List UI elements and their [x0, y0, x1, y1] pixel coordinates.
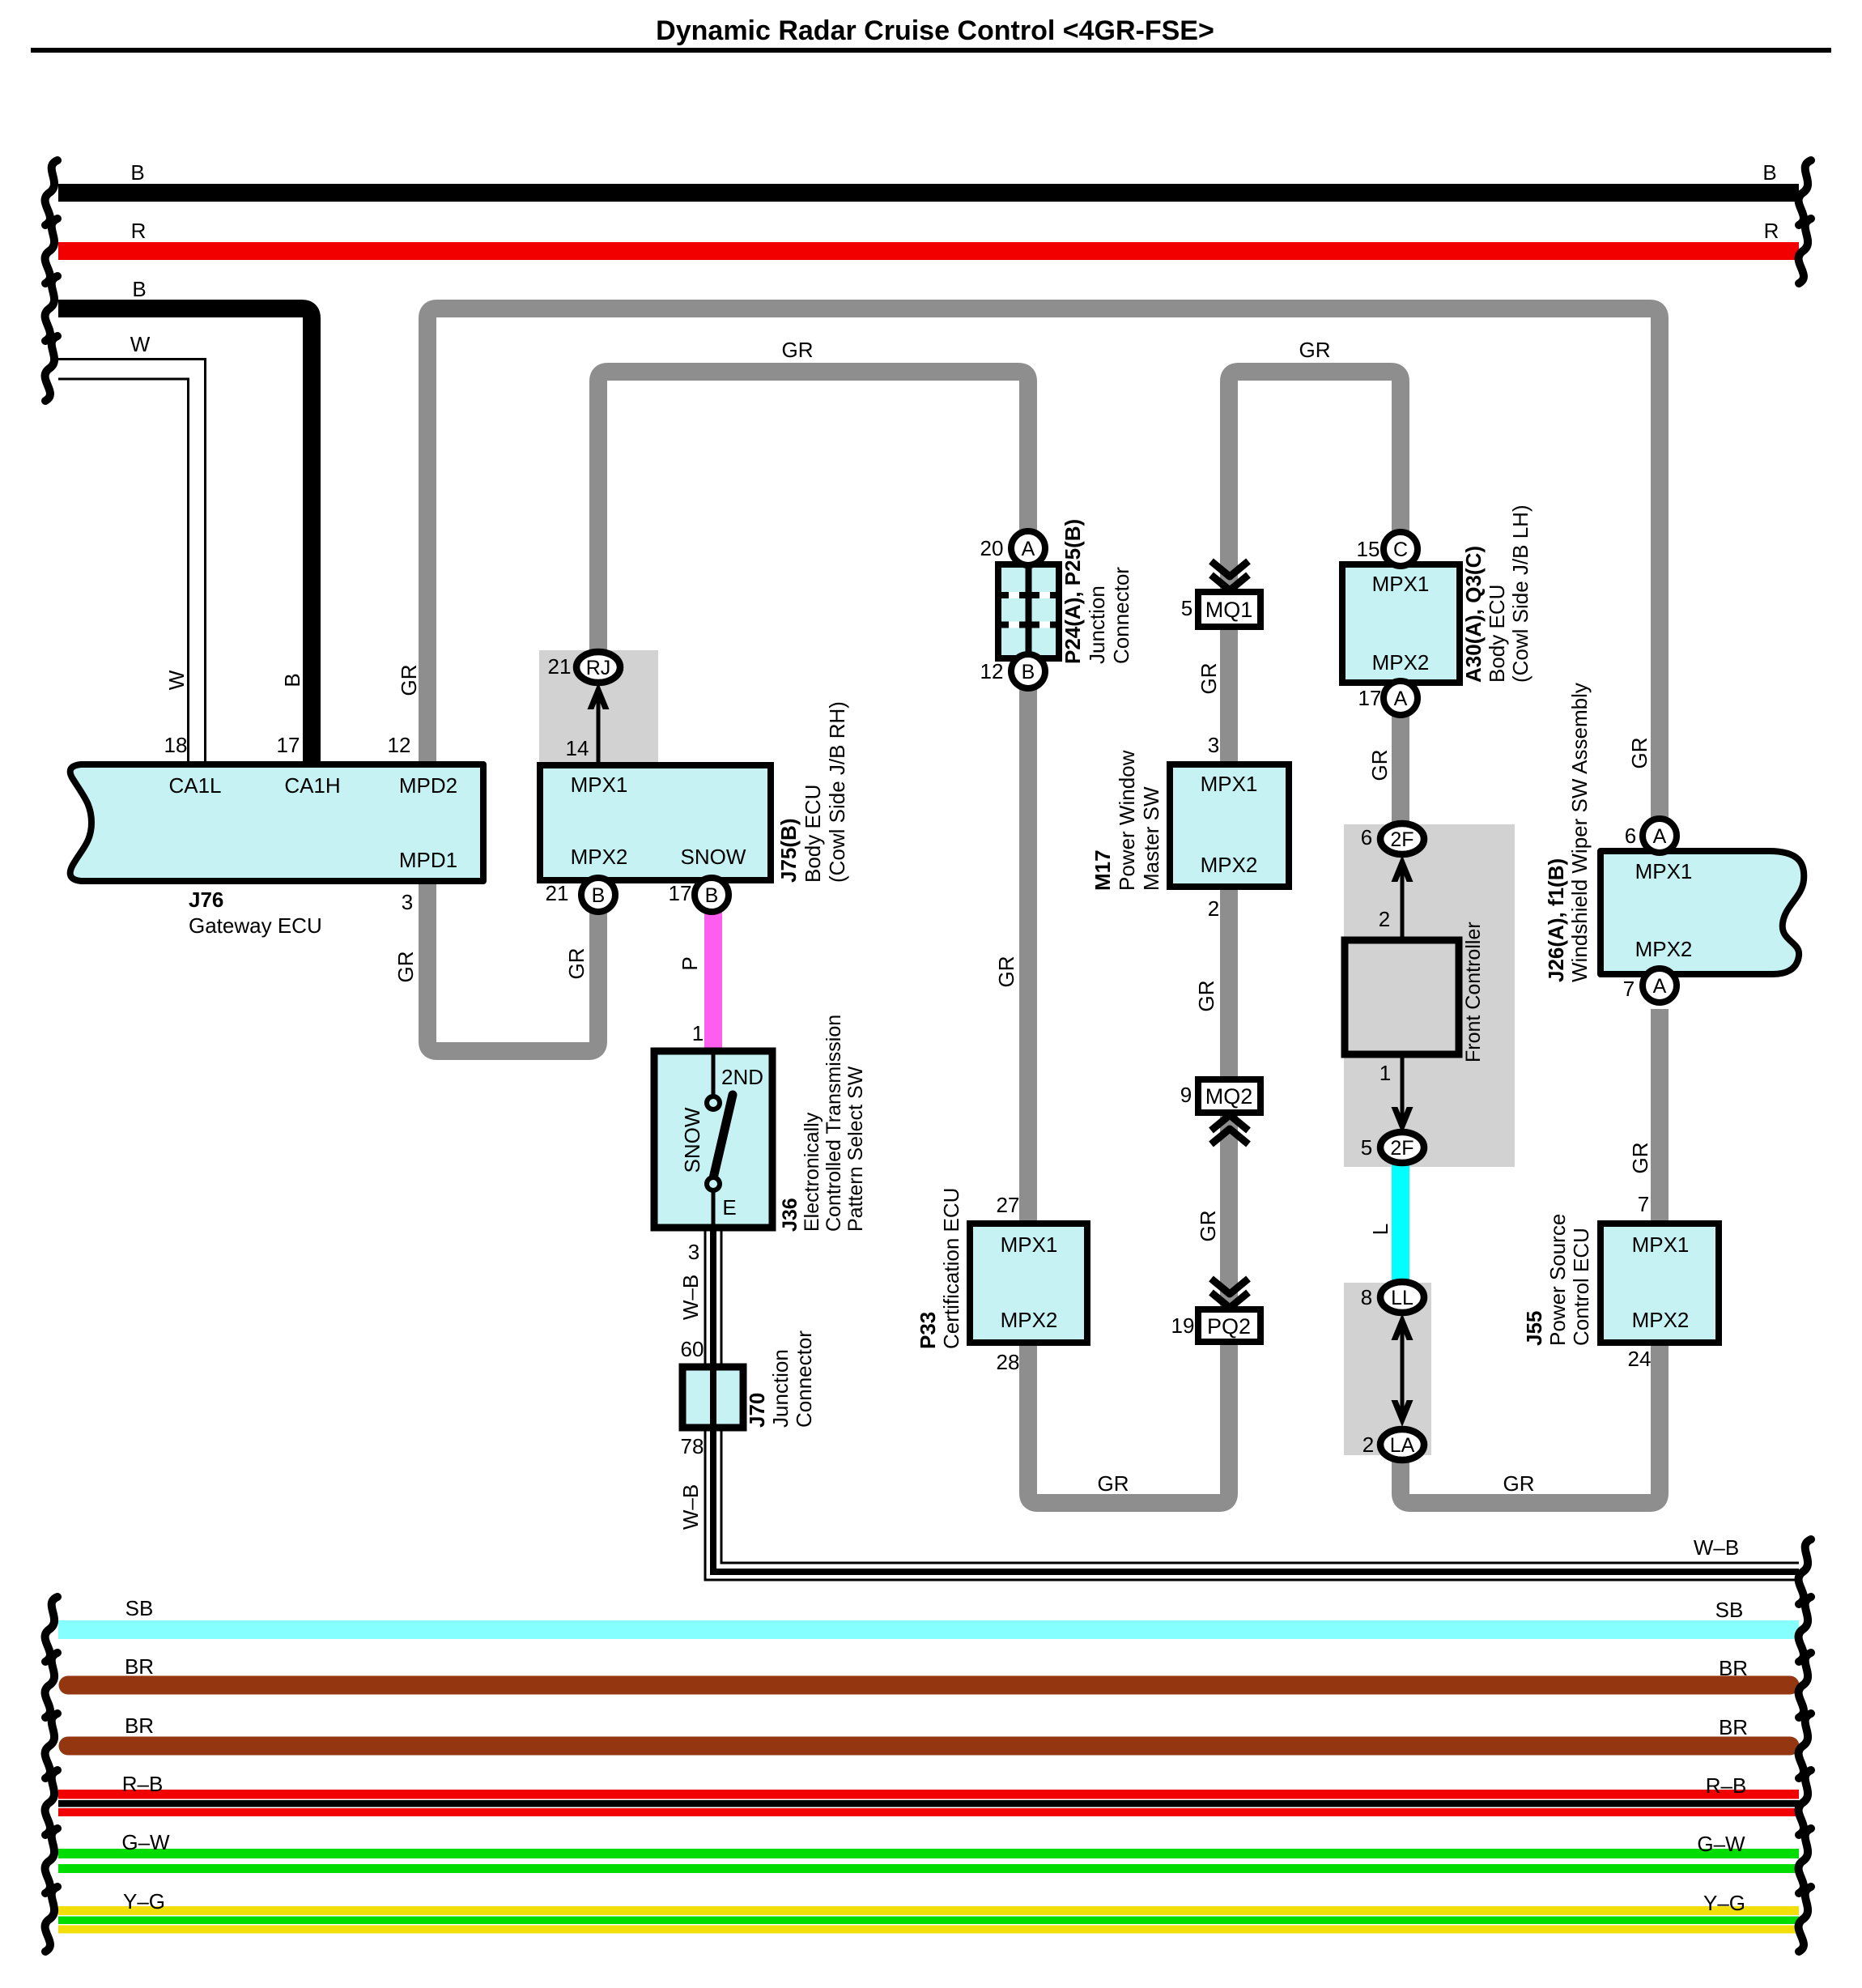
svg-text:R: R	[1764, 219, 1779, 243]
svg-text:Master SW: Master SW	[1139, 786, 1163, 891]
svg-text:MQ1: MQ1	[1205, 598, 1253, 622]
svg-text:Y–G: Y–G	[123, 1889, 165, 1914]
svg-text:MPX2: MPX2	[571, 845, 628, 869]
svg-text:J75(B): J75(B)	[776, 819, 801, 883]
svg-text:Control ECU: Control ECU	[1569, 1228, 1593, 1346]
svg-text:RJ: RJ	[586, 657, 611, 679]
svg-text:A: A	[1394, 687, 1408, 710]
svg-text:B: B	[705, 884, 719, 907]
svg-text:Power Window: Power Window	[1115, 750, 1139, 891]
svg-text:M17: M17	[1090, 849, 1115, 891]
svg-text:2F: 2F	[1390, 828, 1414, 851]
svg-text:R–B: R–B	[122, 1772, 164, 1796]
svg-text:MPX2: MPX2	[1201, 853, 1258, 877]
svg-text:MPX2: MPX2	[1001, 1308, 1058, 1332]
svg-text:3: 3	[402, 890, 413, 914]
svg-text:W: W	[164, 670, 189, 690]
svg-text:6: 6	[1361, 825, 1372, 849]
svg-text:3: 3	[1208, 733, 1219, 757]
svg-text:W–B: W–B	[678, 1484, 703, 1530]
svg-text:GR: GR	[393, 951, 418, 983]
svg-text:W: W	[130, 332, 151, 356]
svg-text:MPX2: MPX2	[1372, 650, 1430, 675]
svg-text:GR: GR	[1197, 663, 1221, 695]
svg-text:Pattern Select SW: Pattern Select SW	[844, 1066, 867, 1232]
svg-text:17: 17	[669, 881, 692, 905]
svg-text:GR: GR	[397, 665, 421, 696]
svg-text:A: A	[1653, 975, 1667, 998]
svg-text:Controlled Transmission: Controlled Transmission	[823, 1015, 845, 1232]
svg-text:2: 2	[1362, 1432, 1374, 1457]
svg-text:2: 2	[1208, 896, 1219, 921]
svg-text:Y–G: Y–G	[1703, 1891, 1745, 1915]
svg-text:MPX2: MPX2	[1632, 1308, 1690, 1332]
svg-text:B: B	[130, 160, 144, 185]
svg-text:2F: 2F	[1390, 1137, 1414, 1160]
svg-text:SNOW: SNOW	[681, 845, 746, 869]
svg-text:15: 15	[1357, 537, 1380, 561]
svg-text:Junction: Junction	[768, 1349, 793, 1428]
svg-text:PQ2: PQ2	[1207, 1314, 1251, 1339]
svg-text:MPD2: MPD2	[399, 773, 457, 798]
svg-text:B: B	[132, 277, 146, 301]
svg-text:P33: P33	[916, 1312, 940, 1349]
svg-text:A: A	[1022, 538, 1035, 560]
svg-text:B: B	[1762, 160, 1776, 185]
svg-text:17: 17	[1358, 686, 1382, 710]
svg-text:60: 60	[681, 1337, 704, 1361]
svg-text:G–W: G–W	[121, 1830, 170, 1854]
svg-text:78: 78	[681, 1434, 704, 1458]
svg-text:7: 7	[1638, 1192, 1649, 1216]
svg-text:J76: J76	[189, 888, 223, 912]
svg-text:R–B: R–B	[1706, 1773, 1747, 1798]
svg-text:GR: GR	[1367, 750, 1392, 781]
svg-text:Windshield Wiper SW Assembly: Windshield Wiper SW Assembly	[1567, 683, 1592, 982]
svg-text:24: 24	[1628, 1347, 1652, 1371]
svg-text:3: 3	[688, 1240, 699, 1264]
svg-text:GR: GR	[1503, 1471, 1535, 1496]
svg-text:J55: J55	[1522, 1311, 1546, 1346]
svg-text:GR: GR	[994, 956, 1018, 988]
svg-text:21: 21	[548, 654, 572, 679]
svg-text:5: 5	[1361, 1135, 1372, 1160]
svg-text:Gateway ECU: Gateway ECU	[189, 913, 322, 938]
svg-text:J36: J36	[779, 1198, 801, 1232]
svg-text:MPX1: MPX1	[1001, 1232, 1058, 1257]
svg-text:Front Controller: Front Controller	[1462, 922, 1485, 1062]
svg-text:B: B	[1022, 661, 1035, 683]
svg-text:P24(A), P25(B): P24(A), P25(B)	[1061, 519, 1085, 664]
svg-text:CA1L: CA1L	[168, 773, 221, 798]
svg-text:G–W: G–W	[1697, 1832, 1745, 1856]
svg-text:12: 12	[980, 659, 1004, 683]
svg-text:R: R	[131, 219, 147, 243]
svg-text:GR: GR	[564, 948, 589, 980]
svg-text:GR: GR	[1194, 981, 1218, 1012]
svg-text:W–B: W–B	[678, 1275, 703, 1320]
svg-text:17: 17	[277, 733, 300, 757]
svg-text:GR: GR	[1628, 1143, 1652, 1174]
svg-text:SB: SB	[1715, 1598, 1744, 1622]
svg-text:Connector: Connector	[1109, 567, 1133, 664]
svg-text:GR: GR	[1098, 1471, 1129, 1496]
svg-text:MPX1: MPX1	[1632, 1232, 1690, 1257]
svg-text:MPX1: MPX1	[1201, 772, 1258, 796]
svg-text:6: 6	[1625, 824, 1636, 848]
svg-text:Body ECU: Body ECU	[801, 785, 825, 883]
svg-text:18: 18	[164, 733, 188, 757]
svg-text:BR: BR	[1719, 1656, 1748, 1680]
svg-text:P: P	[678, 956, 702, 970]
svg-text:Certification ECU: Certification ECU	[939, 1188, 963, 1349]
svg-text:8: 8	[1361, 1285, 1372, 1309]
svg-text:J26(A), f1(B): J26(A), f1(B)	[1544, 858, 1568, 982]
svg-text:1: 1	[1379, 1061, 1391, 1085]
svg-text:A: A	[1653, 825, 1667, 848]
svg-text:MPX1: MPX1	[1372, 572, 1430, 596]
svg-text:CA1H: CA1H	[284, 773, 340, 798]
svg-text:27: 27	[997, 1193, 1020, 1217]
svg-text:C: C	[1393, 539, 1408, 561]
svg-text:20: 20	[980, 536, 1004, 560]
svg-text:14: 14	[566, 736, 589, 760]
svg-text:SNOW: SNOW	[680, 1107, 704, 1173]
svg-text:GR: GR	[1196, 1211, 1220, 1242]
svg-text:5: 5	[1181, 596, 1192, 620]
svg-text:1: 1	[692, 1021, 704, 1045]
svg-text:B: B	[592, 884, 606, 907]
svg-text:MPX2: MPX2	[1635, 937, 1693, 961]
svg-text:Body ECU: Body ECU	[1485, 585, 1509, 683]
svg-text:A30(A), Q3(C): A30(A), Q3(C)	[1461, 546, 1486, 683]
svg-text:21: 21	[546, 881, 569, 905]
svg-text:(Cowl Side J/B RH): (Cowl Side J/B RH)	[825, 701, 849, 883]
svg-text:Power Source: Power Source	[1545, 1214, 1570, 1346]
svg-text:7: 7	[1623, 977, 1635, 1001]
svg-text:GR: GR	[782, 338, 814, 362]
svg-text:MPX1: MPX1	[571, 773, 628, 797]
svg-text:GR: GR	[1299, 338, 1331, 362]
svg-text:MPX1: MPX1	[1635, 859, 1693, 883]
svg-text:MPD1: MPD1	[399, 848, 457, 872]
svg-text:J70: J70	[745, 1393, 769, 1428]
svg-text:BR: BR	[1719, 1715, 1748, 1739]
svg-text:MQ2: MQ2	[1205, 1084, 1253, 1109]
svg-text:28: 28	[997, 1350, 1020, 1374]
svg-text:GR: GR	[1627, 738, 1652, 769]
svg-text:BR: BR	[125, 1713, 154, 1738]
svg-text:(Cowl Side J/B LH): (Cowl Side J/B LH)	[1508, 504, 1533, 683]
svg-text:W–B: W–B	[1694, 1535, 1739, 1560]
svg-text:12: 12	[388, 733, 411, 757]
svg-text:LA: LA	[1390, 1434, 1415, 1457]
svg-text:9: 9	[1180, 1083, 1192, 1107]
svg-text:L: L	[1368, 1224, 1392, 1235]
svg-text:Dynamic Radar Cruise Control <: Dynamic Radar Cruise Control <4GR-FSE>	[656, 15, 1214, 46]
svg-text:Junction: Junction	[1085, 585, 1109, 664]
svg-text:E: E	[722, 1195, 736, 1220]
svg-text:B: B	[280, 673, 304, 687]
svg-text:2ND: 2ND	[721, 1065, 763, 1089]
svg-text:SB: SB	[125, 1596, 154, 1620]
svg-text:BR: BR	[125, 1654, 154, 1679]
svg-text:LL: LL	[1391, 1287, 1414, 1309]
svg-text:2: 2	[1379, 907, 1390, 931]
svg-text:Connector: Connector	[792, 1330, 816, 1428]
svg-text:19: 19	[1171, 1313, 1195, 1338]
svg-text:Electronically: Electronically	[801, 1112, 823, 1232]
